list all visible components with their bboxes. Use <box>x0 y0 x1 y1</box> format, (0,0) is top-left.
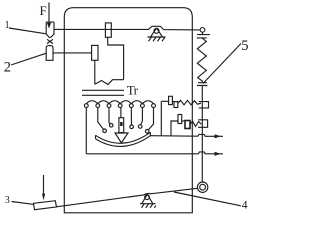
selector stud contacts <box>103 124 149 134</box>
leader line 2 <box>11 53 46 65</box>
wiper triangle <box>115 133 128 143</box>
bottom fulcrum triangle <box>142 194 153 204</box>
weight block tilted <box>34 201 57 210</box>
secondary winding zigzag with taps <box>86 101 153 104</box>
resistor R3 <box>178 115 182 124</box>
top fulcrum hatching <box>149 37 166 41</box>
bottom fulcrum circle <box>145 195 150 200</box>
top fulcrum triangle <box>151 28 163 37</box>
leader line 1 <box>9 28 46 34</box>
svg-text:F: F <box>40 3 47 18</box>
svg-text:4: 4 <box>242 198 248 212</box>
spring top bars <box>197 32 210 38</box>
tap wires to selector studs <box>98 108 104 130</box>
tap circles <box>84 104 155 108</box>
transformer core lines <box>82 90 124 95</box>
leader line 3 <box>12 202 35 205</box>
component 2 cylinder <box>46 46 53 61</box>
top fulcrum pivot circle <box>154 28 159 33</box>
wire from R3 left down to output wire <box>171 121 178 136</box>
force arrow on weight <box>43 175 45 194</box>
bottom output wire with hop <box>86 152 223 154</box>
top fulcrum base line <box>147 36 165 38</box>
link rect on lower rod <box>92 45 98 60</box>
wiper holder rect <box>119 118 124 133</box>
spring 5 zigzag <box>197 38 206 83</box>
bottom fulcrum base <box>140 203 156 205</box>
svg-text:2: 2 <box>4 60 11 76</box>
component 1 plunger housing <box>46 22 54 38</box>
bus contact bracket upper <box>199 102 209 108</box>
output arrow upper <box>215 134 221 138</box>
link rod lower <box>53 52 92 54</box>
output arrow lower <box>215 152 221 156</box>
svg-text:3: 3 <box>5 195 10 206</box>
return wire from first tap <box>85 108 87 154</box>
svg-text:5: 5 <box>241 38 248 54</box>
flexible joint hourglass <box>47 39 53 43</box>
spring hook circle <box>200 28 205 33</box>
right bus wire <box>201 86 203 183</box>
force F arrow <box>48 3 50 24</box>
branch junction wire <box>160 101 162 135</box>
leader line 5 <box>203 44 241 84</box>
resistor R1 <box>169 96 173 104</box>
wiper inner dark rect <box>120 122 123 126</box>
electrode zigzag bottom <box>95 80 124 85</box>
lever arm <box>57 188 198 207</box>
bottom fulcrum hatching <box>142 204 156 208</box>
wire R3 to R4 <box>182 120 185 122</box>
leader line 4 <box>174 192 241 206</box>
svg-text:Tr: Tr <box>127 82 139 97</box>
output wire from arc end with hop <box>150 134 223 136</box>
wiggle wire to bus upper <box>178 100 201 104</box>
contact arc band <box>96 132 151 146</box>
resistor R4 <box>185 121 190 129</box>
damper rect on lever <box>105 23 111 37</box>
lever beam top <box>54 26 200 30</box>
bus contact bracket lower <box>198 120 208 128</box>
wire from damper to electrode <box>108 37 124 79</box>
furnace tank outline <box>64 8 192 213</box>
pulley outer circle <box>197 182 207 192</box>
wiper stem wire <box>120 108 122 118</box>
wire from link rect down <box>94 60 96 84</box>
spring bottom bars <box>197 83 208 86</box>
svg-text:1: 1 <box>5 20 10 31</box>
wiggle wire to bus lower <box>190 121 201 127</box>
wire to R1 <box>161 100 174 102</box>
resistor R2 <box>174 102 178 108</box>
pulley inner circle <box>200 184 206 190</box>
